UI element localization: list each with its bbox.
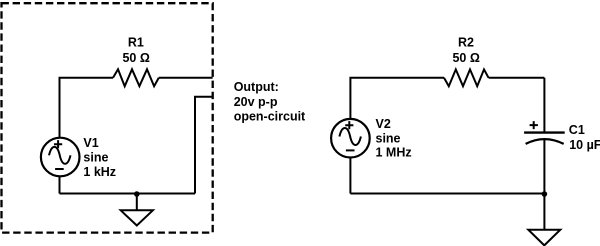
svg-text:sine: sine xyxy=(376,132,401,146)
wire: bottom rail (V1 minus to output return) xyxy=(60,193,196,195)
svg-text:V2: V2 xyxy=(376,117,391,131)
svg-text:20v p-p: 20v p-p xyxy=(234,95,278,109)
svg-text:sine: sine xyxy=(83,151,108,165)
svg-text:50 Ω: 50 Ω xyxy=(122,51,149,65)
wire: top right corner down to C1 top plate xyxy=(543,78,545,133)
junction dot (right ground node) xyxy=(542,191,548,197)
svg-text:V1: V1 xyxy=(83,136,98,150)
wire: R2 right lead to top right corner xyxy=(489,77,545,79)
wire: V2 bottom lead xyxy=(349,158,351,193)
wire: R1 right lead to output terminal at box edge xyxy=(159,77,213,79)
wire: V2 top up and across to R2 left lead xyxy=(350,78,444,119)
wire: V1 top up and across to R1 left lead xyxy=(60,78,114,137)
wire: V1 bottom lead xyxy=(59,177,61,194)
wire: bottom rail (V2 minus to C1) xyxy=(350,193,544,195)
svg-text:C1: C1 xyxy=(569,123,585,137)
svg-text:R1: R1 xyxy=(128,36,144,50)
resistor R1 xyxy=(113,69,159,86)
source V2 (sine) xyxy=(331,119,370,158)
ground (left) xyxy=(121,194,153,226)
svg-text:open-circuit: open-circuit xyxy=(234,110,306,124)
dashed enclosure (Thevenin source box) xyxy=(2,3,213,232)
resistor R2 xyxy=(444,69,489,86)
svg-text:50 Ω: 50 Ω xyxy=(452,51,479,65)
capacitor C1 (polarized) xyxy=(524,121,565,144)
svg-text:R2: R2 xyxy=(458,36,474,50)
svg-text:1 kHz: 1 kHz xyxy=(83,165,116,179)
svg-text:Output:: Output: xyxy=(234,80,279,94)
wire: C1 bottom plate down to bottom rail xyxy=(543,140,545,194)
svg-text:1 MHz: 1 MHz xyxy=(376,146,412,160)
svg-text:10 µF: 10 µF xyxy=(569,138,600,152)
wire: output return stub (box edge to bottom rail) xyxy=(195,97,213,194)
source V1 (sine) xyxy=(41,138,80,177)
junction dot (left ground node) xyxy=(134,191,140,197)
ground (right) xyxy=(528,194,560,245)
